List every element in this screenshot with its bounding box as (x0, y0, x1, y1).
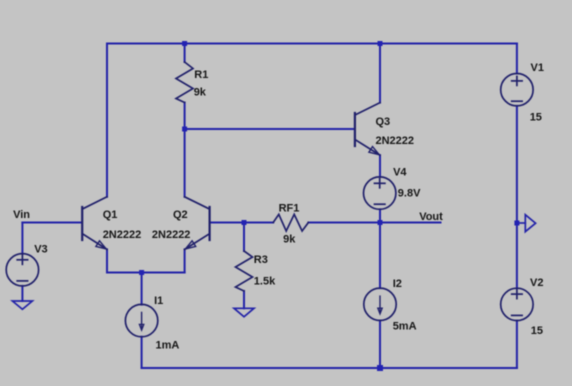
svg-text:V4: V4 (393, 166, 407, 178)
junction at Vout node (378, 220, 383, 225)
wire junction to RF1 (244, 222, 273, 224)
wire mid row to Q3 base (185, 128, 354, 130)
svg-text:9k: 9k (194, 87, 207, 99)
svg-text:RF1: RF1 (279, 202, 300, 214)
current source I1 (125, 304, 157, 336)
svg-text:R3: R3 (254, 254, 268, 266)
junction at port on right rail (514, 221, 519, 226)
wire V3 drop (21, 223, 23, 254)
wire I1 bottom (141, 337, 143, 368)
svg-text:Vout: Vout (419, 211, 443, 223)
resistor R3 (236, 251, 253, 291)
voltage source V4 (364, 177, 396, 209)
svg-text:2N2222: 2N2222 (103, 229, 142, 241)
wire right rail bottom (516, 321, 518, 368)
svg-text:1.5k: 1.5k (254, 276, 276, 288)
svg-text:1mA: 1mA (156, 340, 180, 352)
svg-text:V2: V2 (530, 277, 543, 289)
wire Vout to I2 (379, 223, 381, 289)
junction at bottom rail I2 (377, 365, 383, 371)
wire I2 bottom (379, 321, 381, 369)
svg-text:I1: I1 (154, 295, 163, 307)
output port marker on right rail (517, 215, 536, 232)
wire right rail middle (516, 106, 518, 288)
voltage source V3 (6, 254, 38, 286)
svg-text:9k: 9k (283, 234, 296, 246)
svg-text:Q1: Q1 (103, 209, 118, 221)
wire left vertical to Q1 collector (106, 44, 108, 197)
svg-text:V1: V1 (531, 62, 544, 74)
svg-text:15: 15 (530, 111, 542, 123)
wire right rail top (516, 44, 518, 74)
svg-text:5mA: 5mA (393, 320, 417, 332)
wire emitter row (107, 272, 185, 274)
svg-text:9.8V: 9.8V (398, 188, 421, 200)
transistor Q3 (355, 103, 380, 156)
transistor Q2 (185, 197, 210, 250)
svg-text:Q2: Q2 (173, 209, 188, 221)
ground under V3 (12, 301, 32, 309)
wire Q2 base (210, 222, 244, 224)
ground under R3 (234, 308, 254, 317)
junction at Q2 base R3 RF1 (242, 220, 247, 225)
svg-text:Vin: Vin (13, 209, 30, 221)
wire R1 bottom to Q2 collector (184, 103, 186, 197)
svg-text:R1: R1 (194, 69, 208, 81)
wire I1 top (141, 273, 143, 305)
voltage source V1 (501, 74, 533, 106)
svg-text:15: 15 (531, 325, 543, 337)
current source I2 (364, 288, 396, 320)
wire R3 top lead (243, 223, 245, 252)
wire Q2 emitter drop (184, 249, 186, 272)
wire Q3 collector drop (379, 44, 381, 103)
svg-text:2N2222: 2N2222 (152, 229, 191, 241)
wire top rail (107, 43, 517, 45)
junction at R1 bottom (182, 127, 187, 132)
svg-text:I2: I2 (393, 278, 402, 290)
resistor R1 (176, 44, 193, 103)
transistor Q1 (82, 197, 107, 250)
wire Q1 emitter drop (106, 249, 108, 272)
wire bottom rail (142, 367, 517, 369)
junction at Q3 collector top (378, 41, 383, 46)
voltage source V2 (501, 288, 533, 320)
svg-text:Q3: Q3 (376, 116, 391, 128)
wire Vin row (22, 222, 81, 224)
resistor RF1 (273, 214, 308, 231)
wire Q3 emitter to V4 (379, 155, 381, 177)
wire R3 to ground (243, 291, 245, 308)
wire RF1 to Vout stub (308, 222, 440, 224)
wire V3 to ground (21, 286, 23, 301)
junction at emitter row (139, 270, 144, 275)
junction at R1 top (182, 41, 187, 46)
svg-text:V3: V3 (34, 243, 47, 255)
svg-text:2N2222: 2N2222 (376, 135, 415, 147)
wire V4 bottom (379, 209, 381, 222)
